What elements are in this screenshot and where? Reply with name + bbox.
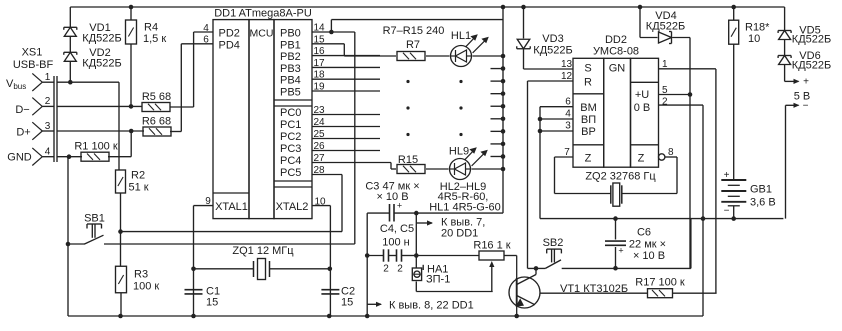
svg-text:R3: R3	[134, 269, 148, 281]
svg-text:Z: Z	[638, 153, 645, 165]
svg-text:PB1: PB1	[280, 39, 301, 51]
svg-text:GB1: GB1	[750, 184, 772, 196]
svg-text:КД522Б: КД522Б	[792, 59, 831, 71]
svg-text:GN: GN	[609, 63, 626, 75]
svg-text:6: 6	[565, 97, 571, 108]
svg-text:R7–R15 240: R7–R15 240	[383, 25, 445, 37]
svg-text:+: +	[397, 201, 402, 211]
svg-text:2: 2	[383, 264, 389, 275]
svg-text:15: 15	[341, 297, 353, 309]
svg-text:VD3: VD3	[542, 33, 563, 45]
svg-text:R5 68: R5 68	[142, 91, 171, 103]
svg-text:PB3: PB3	[280, 63, 301, 75]
svg-text:13: 13	[561, 59, 573, 70]
svg-text:DD1 ATmega8A-PU: DD1 ATmega8A-PU	[214, 8, 312, 20]
svg-text:3,6 В: 3,6 В	[750, 197, 776, 209]
svg-text:R1 100 к: R1 100 к	[74, 141, 118, 153]
svg-text:4: 4	[203, 23, 209, 34]
svg-text:PC3: PC3	[280, 143, 301, 155]
svg-text:PC1: PC1	[280, 119, 301, 131]
svg-text:× 10 В: × 10 В	[633, 250, 665, 262]
svg-text:GND: GND	[7, 152, 32, 164]
svg-text:−: −	[803, 100, 809, 111]
svg-text:100 н: 100 н	[382, 237, 409, 249]
svg-text:PD2: PD2	[219, 28, 240, 40]
svg-text:УМС8-08: УМС8-08	[593, 46, 639, 58]
svg-text:2: 2	[662, 97, 668, 108]
svg-text:PB0: PB0	[280, 28, 301, 40]
svg-text:R6 68: R6 68	[142, 116, 171, 128]
svg-text:R4: R4	[144, 22, 158, 34]
svg-text:−: −	[724, 206, 730, 217]
svg-text:HL1 4R5-G-60: HL1 4R5-G-60	[429, 202, 501, 214]
svg-text:PB2: PB2	[280, 51, 301, 63]
svg-text:S: S	[584, 63, 591, 75]
svg-text:× 10 В: × 10 В	[376, 191, 408, 203]
svg-text:3: 3	[45, 121, 51, 132]
svg-text:0 В: 0 В	[634, 102, 651, 114]
svg-text:6: 6	[203, 35, 209, 46]
svg-text:22 мк ×: 22 мк ×	[629, 239, 666, 251]
svg-text:КД522Б: КД522Б	[533, 45, 572, 57]
svg-text:51 к: 51 к	[129, 182, 149, 194]
svg-text:Z: Z	[585, 153, 592, 165]
svg-text:D−: D−	[15, 104, 29, 116]
svg-text:PB4: PB4	[280, 75, 301, 87]
svg-text:C4, C5: C4, C5	[380, 223, 414, 235]
svg-text:10: 10	[748, 33, 760, 45]
svg-text:D+: D+	[16, 127, 30, 139]
svg-text:R18*: R18*	[745, 22, 770, 34]
svg-text:PC4: PC4	[280, 155, 301, 167]
svg-text:ВМ: ВМ	[580, 102, 597, 114]
svg-text:20 DD1: 20 DD1	[441, 228, 478, 240]
svg-text:R: R	[584, 77, 592, 89]
svg-text:К выв. 8, 22 DD1: К выв. 8, 22 DD1	[389, 300, 474, 312]
svg-text:XTAL2: XTAL2	[276, 201, 309, 213]
svg-text:15: 15	[206, 297, 218, 309]
svg-text:R16 1 к: R16 1 к	[473, 240, 510, 252]
svg-text:КД522Б: КД522Б	[792, 33, 831, 45]
svg-text:R7: R7	[406, 39, 420, 51]
svg-text:КД522Б: КД522Б	[82, 58, 121, 70]
svg-text:XTAL1: XTAL1	[215, 201, 248, 213]
svg-text:1: 1	[45, 72, 51, 83]
svg-text:PB5: PB5	[280, 87, 301, 99]
svg-text:2: 2	[397, 264, 403, 275]
svg-text:R17 100 к: R17 100 к	[635, 277, 685, 289]
svg-text:ЗП-1: ЗП-1	[426, 274, 450, 286]
svg-text:XS1: XS1	[22, 47, 43, 59]
svg-text:3: 3	[565, 121, 571, 132]
svg-text:КД522Б: КД522Б	[82, 33, 121, 45]
svg-text:1,5 к: 1,5 к	[143, 33, 166, 45]
svg-text:SB2: SB2	[543, 237, 564, 249]
svg-text:PC2: PC2	[280, 131, 301, 143]
svg-text:ZQ1 12 МГц: ZQ1 12 МГц	[232, 245, 294, 257]
svg-text:R2: R2	[131, 170, 145, 182]
svg-text:USB-BF: USB-BF	[13, 59, 54, 71]
svg-text:4: 4	[565, 109, 571, 120]
svg-text:PD4: PD4	[219, 40, 240, 52]
svg-text:ВР: ВР	[581, 126, 596, 138]
svg-text:PC0: PC0	[280, 107, 301, 119]
svg-text:КД522Б: КД522Б	[646, 21, 685, 33]
svg-text:С6: С6	[637, 227, 651, 239]
svg-text:MCU: MCU	[250, 28, 274, 40]
svg-text:+: +	[724, 170, 730, 181]
svg-text:SB1: SB1	[84, 213, 105, 225]
svg-text:+: +	[803, 77, 809, 88]
svg-text:+U: +U	[635, 89, 649, 101]
svg-text:DD2: DD2	[605, 34, 627, 46]
svg-text:2: 2	[45, 96, 51, 107]
svg-text:4: 4	[45, 147, 51, 158]
svg-text:HL9: HL9	[449, 146, 469, 158]
svg-text:ZQ2 32768 Гц: ZQ2 32768 Гц	[585, 171, 656, 183]
svg-text:100 к: 100 к	[133, 281, 159, 293]
svg-text:HL1: HL1	[451, 30, 471, 42]
svg-text:+: +	[618, 246, 623, 256]
svg-text:PC5: PC5	[280, 167, 301, 179]
svg-text:ВП: ВП	[581, 114, 596, 126]
